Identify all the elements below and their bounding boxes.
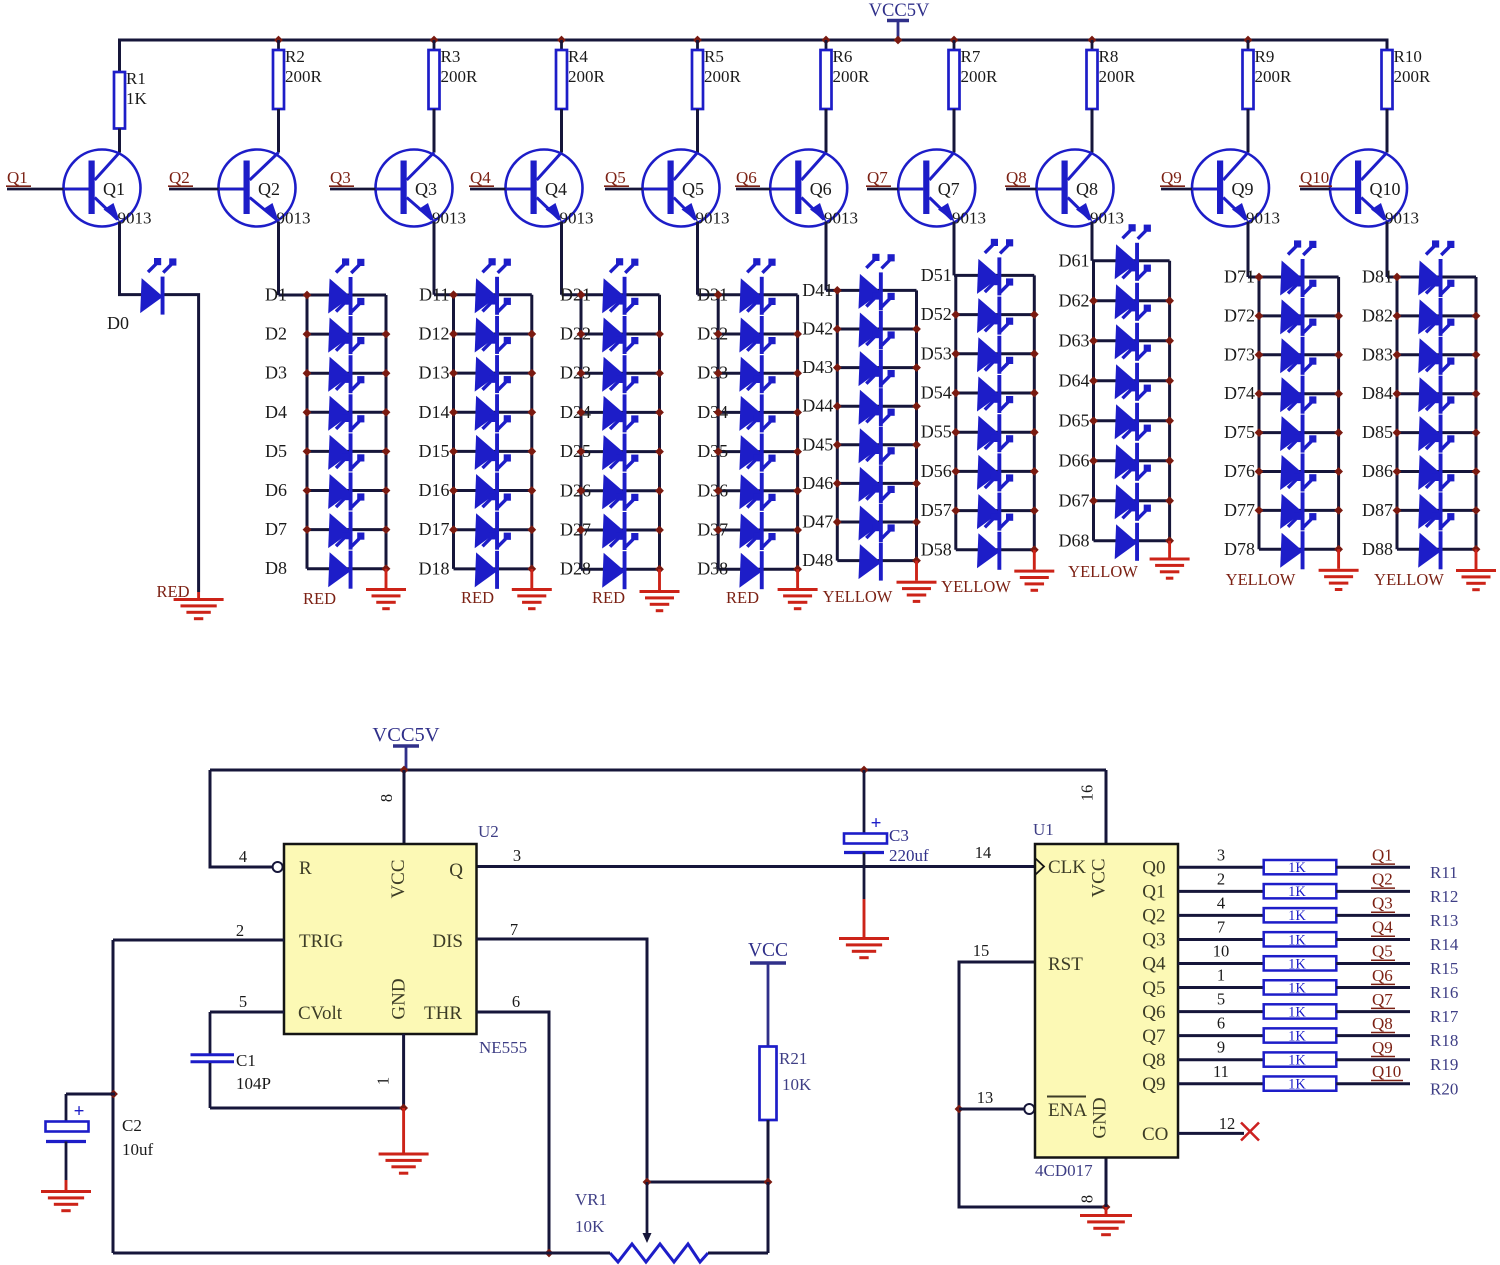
- svg-text:R9: R9: [1255, 47, 1275, 66]
- svg-text:YELLOW: YELLOW: [1374, 570, 1444, 589]
- capacitor C2 10uf: [46, 1094, 89, 1180]
- wire red stem ground col3: [530, 569, 533, 588]
- junction cathode bus: [527, 408, 536, 417]
- wire base of Q2: [169, 188, 244, 191]
- junction THR / bottom rail: [545, 1249, 554, 1258]
- LED D11: [475, 258, 511, 315]
- svg-text:5: 5: [1217, 990, 1225, 1009]
- svg-text:D28: D28: [560, 559, 591, 579]
- junction cathode bus: [1334, 506, 1343, 515]
- svg-text:Q7: Q7: [1142, 1026, 1165, 1047]
- wire LED row D47: [837, 521, 916, 524]
- svg-text:YELLOW: YELLOW: [823, 587, 893, 606]
- LED D56: [977, 435, 1013, 492]
- junction anode bus: [714, 330, 723, 339]
- resistor R21 10K: [760, 1047, 777, 1121]
- svg-text:GND: GND: [389, 978, 410, 1019]
- svg-text:R18: R18: [1430, 1031, 1458, 1050]
- wire LED row D68: [1094, 539, 1170, 542]
- LED D74: [1280, 357, 1316, 414]
- resistor R18 1K: [1264, 1028, 1337, 1044]
- LED D7: [328, 493, 364, 550]
- LED D63: [1115, 304, 1151, 361]
- resistor R10 200R: [1382, 40, 1432, 109]
- svg-text:R1: R1: [126, 69, 146, 88]
- svg-text:R19: R19: [1430, 1055, 1458, 1074]
- junction anode bus: [449, 486, 458, 495]
- junction anode bus: [951, 428, 960, 437]
- svg-text:13: 13: [977, 1088, 994, 1107]
- junction anode bus: [714, 369, 723, 378]
- wire Q3 to R14: [1178, 938, 1264, 941]
- wire Q9 to R10: [1178, 1082, 1264, 1085]
- junction anode bus: [1089, 456, 1098, 465]
- svg-text:R17: R17: [1430, 1007, 1459, 1026]
- svg-text:Q9: Q9: [1161, 168, 1182, 187]
- wire D0 cathode to ground: [165, 295, 199, 592]
- svg-text:D73: D73: [1224, 344, 1255, 364]
- wire LED cathode bus col3: [530, 295, 533, 569]
- junction anode bus: [833, 286, 842, 295]
- junction RST/ENA: [955, 1105, 964, 1114]
- ground col7: [1014, 570, 1054, 592]
- svg-text:200R: 200R: [285, 67, 323, 86]
- wire pin8 VCC of U2: [403, 770, 406, 844]
- junction on VCC rail: [557, 36, 566, 45]
- junction cathode bus: [1472, 428, 1481, 437]
- wire LED row D52: [956, 313, 1035, 316]
- junction cathode bus: [527, 486, 536, 495]
- junction anode bus: [303, 486, 312, 495]
- LED D18: [475, 532, 511, 589]
- resistor R5 200R: [692, 40, 742, 109]
- svg-text:D66: D66: [1059, 450, 1090, 470]
- svg-text:7: 7: [510, 920, 518, 939]
- junction cathode bus: [1165, 376, 1174, 385]
- junction anode bus: [577, 290, 586, 299]
- wire R17 output: [1336, 1010, 1410, 1013]
- net label Q8 (base): [1005, 168, 1030, 187]
- LED D86: [1418, 435, 1454, 492]
- ground col8: [1150, 558, 1190, 580]
- junction anode bus: [1255, 350, 1264, 359]
- junction cathode bus: [912, 479, 921, 488]
- wire THR pin6: [477, 1012, 550, 1253]
- junction DIS/VR1 wiper: [643, 1178, 652, 1187]
- wire emitter Q8 to LED ladder: [1091, 222, 1094, 261]
- svg-text:10: 10: [1213, 942, 1230, 961]
- svg-text:D33: D33: [697, 363, 728, 383]
- svg-text:VCC5V: VCC5V: [372, 724, 439, 746]
- junction anode bus: [303, 447, 312, 456]
- junction cathode bus: [1030, 506, 1039, 515]
- svg-text:Q10: Q10: [1300, 168, 1329, 187]
- pin label ENA: [1047, 1097, 1087, 1122]
- svg-text:9013: 9013: [1385, 209, 1419, 228]
- wire Q0 to R11: [1178, 866, 1264, 869]
- wire LED row D73: [1259, 353, 1339, 356]
- LED D57: [977, 474, 1013, 531]
- wire LED row D7: [307, 528, 386, 531]
- wire LED anode bus col4: [580, 295, 583, 569]
- junction anode bus: [1255, 389, 1264, 398]
- wire LED anode bus col7: [954, 275, 957, 549]
- LED D41: [859, 254, 895, 311]
- junction cathode bus: [793, 526, 802, 535]
- resistor R6 200R: [821, 40, 871, 109]
- wire LED row D54: [956, 392, 1035, 395]
- resistor R7 200R: [949, 40, 999, 109]
- svg-text:9013: 9013: [824, 209, 858, 228]
- LED D51: [977, 239, 1013, 296]
- svg-text:R3: R3: [441, 47, 461, 66]
- svg-text:RED: RED: [592, 588, 625, 607]
- transistor Q2 9013: [219, 150, 311, 228]
- wire LED row D58: [956, 548, 1035, 551]
- svg-text:Q3: Q3: [415, 179, 437, 199]
- svg-text:R5: R5: [704, 47, 724, 66]
- potentiometer VR1 10K wiper: [643, 1182, 652, 1243]
- wire R11 output: [1336, 866, 1410, 869]
- wire LED row D87: [1397, 509, 1476, 512]
- LED D12: [475, 297, 511, 354]
- power symbol VCC (R21): [750, 963, 786, 1047]
- svg-text:RED: RED: [726, 588, 759, 607]
- svg-text:Q10: Q10: [1370, 179, 1401, 199]
- svg-text:D5: D5: [265, 441, 287, 461]
- wire LED row D37: [718, 529, 797, 532]
- wire LED row D46: [837, 482, 916, 485]
- junction anode bus: [1089, 296, 1098, 305]
- junction on VCC rail: [274, 36, 283, 45]
- junction cathode bus: [1472, 506, 1481, 515]
- resistor R19 1K: [1264, 1052, 1337, 1068]
- wire bottom rail right: [708, 1252, 768, 1255]
- wire base of Q3: [330, 188, 401, 191]
- svg-text:1: 1: [374, 1077, 393, 1085]
- svg-text:4CD017: 4CD017: [1035, 1161, 1093, 1180]
- wire TRIG pin2: [113, 939, 284, 942]
- wire LED cathode bus col6: [915, 290, 918, 560]
- LED D83: [1418, 318, 1454, 375]
- wire trig vertical: [112, 940, 115, 1253]
- wire LED row D21: [562, 293, 660, 296]
- net label Q7 (base): [866, 168, 891, 187]
- ground col2: [366, 588, 406, 610]
- wire red stem ground col6: [915, 561, 918, 581]
- svg-text:D56: D56: [921, 461, 952, 481]
- LED D73: [1280, 318, 1316, 375]
- svg-text:D32: D32: [697, 324, 728, 344]
- junction anode bus: [577, 408, 586, 417]
- svg-text:R21: R21: [779, 1049, 807, 1068]
- svg-text:D0: D0: [107, 313, 129, 333]
- transistor Q8 9013: [1037, 150, 1125, 228]
- LED D65: [1115, 384, 1151, 441]
- svg-text:VCC: VCC: [748, 940, 788, 961]
- svg-text:Q5: Q5: [1372, 942, 1393, 961]
- wire LED row D78: [1259, 548, 1339, 551]
- svg-text:Q4: Q4: [1142, 954, 1166, 975]
- wire R12 output: [1336, 890, 1410, 893]
- wire R13 output: [1336, 914, 1410, 917]
- svg-text:Q6: Q6: [736, 168, 757, 187]
- svg-text:D75: D75: [1224, 422, 1255, 442]
- wire red stem ground col8: [1168, 541, 1171, 558]
- junction on VCC rail: [950, 36, 959, 45]
- svg-text:200R: 200R: [1394, 67, 1432, 86]
- junction cathode bus: [793, 486, 802, 495]
- LED D15: [475, 415, 511, 472]
- svg-text:7: 7: [1217, 917, 1225, 936]
- wire collector of Q8: [1091, 109, 1094, 153]
- LED D75: [1280, 396, 1316, 453]
- transistor Q10 9013: [1330, 150, 1419, 228]
- svg-text:RED: RED: [303, 589, 336, 608]
- wire LED row D56: [956, 470, 1035, 473]
- junction cathode bus: [1334, 428, 1343, 437]
- junction anode bus: [303, 525, 312, 534]
- LED D24: [602, 376, 638, 433]
- svg-text:Q6: Q6: [810, 179, 832, 199]
- junction cathode bus: [527, 369, 536, 378]
- wire LED row D86: [1397, 470, 1476, 473]
- junction cathode bus: [793, 369, 802, 378]
- junction C2 tap: [109, 1090, 118, 1099]
- resistor R16 1K: [1264, 980, 1337, 996]
- transistor Q6 9013: [770, 150, 858, 228]
- svg-text:1K: 1K: [126, 89, 148, 108]
- wire collector of Q4: [560, 109, 563, 153]
- svg-text:1K: 1K: [1288, 1004, 1306, 1020]
- svg-text:D48: D48: [802, 550, 833, 570]
- svg-text:10K: 10K: [575, 1217, 605, 1236]
- wire LED row D3: [307, 372, 386, 375]
- LED D77: [1280, 474, 1316, 531]
- svg-text:Q2: Q2: [169, 168, 190, 187]
- wire LED row D17: [454, 528, 532, 531]
- wire CO pin12: [1178, 1132, 1244, 1135]
- junction anode bus: [449, 408, 458, 417]
- svg-text:Q4: Q4: [545, 179, 567, 199]
- ground col9: [1319, 569, 1359, 591]
- wire red stem ground col7: [1033, 550, 1036, 570]
- LED D81: [1418, 240, 1454, 297]
- svg-text:11: 11: [1213, 1062, 1229, 1081]
- svg-text:R11: R11: [1430, 863, 1458, 882]
- resistor R9 200R: [1243, 40, 1293, 109]
- resistor R8 200R: [1087, 40, 1137, 109]
- LED D85: [1418, 396, 1454, 453]
- svg-text:D22: D22: [560, 324, 591, 344]
- wire red stem ground col9: [1337, 549, 1340, 569]
- svg-text:D14: D14: [419, 402, 450, 422]
- svg-text:Q3: Q3: [1142, 930, 1165, 951]
- wire LED row D43: [837, 366, 916, 369]
- svg-text:200R: 200R: [833, 67, 871, 86]
- junction anode bus: [833, 440, 842, 449]
- junction anode bus: [714, 447, 723, 456]
- net label Q1 (base): [6, 168, 31, 187]
- svg-text:ENA: ENA: [1048, 1100, 1087, 1121]
- wire LED row D76: [1259, 470, 1339, 473]
- wire LED row D75: [1259, 431, 1339, 434]
- svg-text:9013: 9013: [432, 209, 466, 228]
- svg-text:15: 15: [973, 941, 990, 960]
- junction cathode bus: [382, 408, 391, 417]
- junction cathode bus: [1472, 350, 1481, 359]
- wire R21 bottom: [767, 1120, 770, 1182]
- wire LED row D24: [581, 411, 660, 414]
- wire emitter Q1 to D0: [120, 222, 142, 295]
- svg-text:1K: 1K: [1288, 1028, 1306, 1044]
- LED D33: [739, 337, 775, 394]
- junction cathode bus: [912, 363, 921, 372]
- capacitor C1 104P: [191, 1012, 235, 1108]
- wire LED row D45: [837, 443, 916, 446]
- svg-text:D2: D2: [265, 324, 287, 344]
- wire: VCC5V top rail: [120, 40, 1388, 72]
- junction anode bus: [1393, 273, 1402, 282]
- svg-text:D6: D6: [265, 480, 287, 500]
- svg-text:D34: D34: [697, 402, 728, 422]
- junction anode bus: [449, 330, 458, 339]
- junction cathode bus: [1030, 467, 1039, 476]
- svg-text:Q4: Q4: [1372, 918, 1393, 937]
- wire LED cathode bus col10: [1475, 277, 1478, 549]
- svg-text:4: 4: [1217, 893, 1225, 912]
- junction cathode bus: [1165, 496, 1174, 505]
- wire LED cathode bus col7: [1033, 275, 1036, 549]
- wire red stem C3 ground: [863, 899, 866, 937]
- wire LED cathode bus col9: [1337, 277, 1340, 549]
- svg-text:14: 14: [975, 843, 992, 862]
- LED D67: [1115, 464, 1151, 521]
- svg-text:VCC: VCC: [1089, 858, 1110, 897]
- svg-text:1K: 1K: [1288, 908, 1306, 924]
- svg-text:5: 5: [239, 992, 247, 1011]
- wire base of Q9: [1161, 188, 1217, 191]
- wire LED row D85: [1397, 431, 1476, 434]
- svg-text:Q5: Q5: [1142, 978, 1165, 999]
- LED D72: [1280, 279, 1316, 336]
- wire LED row D34: [718, 411, 797, 414]
- svg-text:D85: D85: [1362, 422, 1393, 442]
- svg-text:9: 9: [1217, 1038, 1225, 1057]
- svg-text:D58: D58: [921, 539, 952, 559]
- LED D42: [859, 292, 895, 349]
- wire LED row D16: [454, 489, 532, 492]
- net label Q4 (base): [469, 168, 494, 187]
- wire LED row D72: [1259, 314, 1339, 317]
- svg-text:YELLOW: YELLOW: [1068, 562, 1138, 581]
- svg-text:8: 8: [377, 794, 396, 802]
- svg-text:D11: D11: [419, 284, 449, 304]
- wire ENA pin13: [959, 1108, 1024, 1111]
- svg-text:D82: D82: [1362, 305, 1393, 325]
- svg-text:2: 2: [1217, 869, 1225, 888]
- net label Q4 (output): [1371, 918, 1395, 937]
- potentiometer VR1 zigzag: [610, 1244, 708, 1262]
- wire R15 output: [1336, 962, 1410, 965]
- LED D26: [602, 454, 638, 511]
- wire LED row D71: [1248, 276, 1339, 279]
- net label Q6 (output): [1371, 966, 1395, 985]
- svg-text:1: 1: [1217, 966, 1225, 985]
- svg-text:NE555: NE555: [479, 1038, 527, 1057]
- wire R14 output: [1336, 938, 1410, 941]
- svg-text:CLK: CLK: [1048, 857, 1086, 878]
- junction cathode bus: [1030, 310, 1039, 319]
- svg-text:Q9: Q9: [1232, 179, 1254, 199]
- wire LED row D26: [581, 489, 660, 492]
- junction cathode bus: [1334, 467, 1343, 476]
- svg-text:D36: D36: [697, 480, 728, 500]
- junction cathode bus: [1165, 296, 1174, 305]
- ground col1: [174, 598, 224, 620]
- svg-text:D25: D25: [560, 441, 591, 461]
- wire DIS pin7: [477, 939, 648, 1182]
- junction cathode bus: [793, 447, 802, 456]
- wire emitter Q3 to LED ladder: [433, 222, 436, 295]
- svg-text:D51: D51: [921, 265, 952, 285]
- svg-text:C3: C3: [889, 826, 909, 845]
- junction VCC rail / C3: [860, 766, 869, 775]
- svg-text:R: R: [299, 858, 312, 879]
- svg-text:U2: U2: [478, 822, 499, 841]
- svg-text:Q4: Q4: [470, 168, 491, 187]
- wire LED row D82: [1397, 314, 1476, 317]
- wire Q4 to R15: [1178, 962, 1264, 965]
- LED D68: [1115, 504, 1151, 561]
- junction cathode bus: [1472, 312, 1481, 321]
- LED D58: [977, 513, 1013, 570]
- junction cathode bus: [382, 447, 391, 456]
- svg-text:Q10: Q10: [1372, 1062, 1401, 1081]
- ground col3: [512, 588, 552, 610]
- wire LED row D51: [954, 274, 1034, 277]
- LED D16: [475, 454, 511, 511]
- svg-text:1K: 1K: [1288, 956, 1306, 972]
- svg-text:D21: D21: [560, 284, 591, 304]
- svg-text:D81: D81: [1362, 267, 1393, 287]
- svg-text:RED: RED: [157, 582, 190, 601]
- LED D2: [328, 298, 364, 355]
- resistor R1 1K: [114, 69, 148, 129]
- no-connect X on CO: [1241, 1123, 1259, 1141]
- clock input triangle: [1035, 858, 1044, 875]
- svg-text:R4: R4: [568, 47, 588, 66]
- LED D4: [328, 376, 364, 433]
- svg-text:U1: U1: [1033, 820, 1054, 839]
- svg-text:D63: D63: [1059, 330, 1090, 350]
- svg-text:2: 2: [236, 921, 244, 940]
- wire red stem col1 ground: [197, 592, 200, 598]
- LED D78: [1280, 513, 1316, 570]
- svg-text:R13: R13: [1430, 911, 1458, 930]
- svg-text:1K: 1K: [1288, 1077, 1306, 1093]
- net label Q2 (output): [1371, 870, 1395, 889]
- resistor R15 1K: [1264, 956, 1337, 972]
- svg-text:Q2: Q2: [1372, 870, 1393, 889]
- svg-text:D3: D3: [265, 363, 287, 383]
- junction cathode bus: [527, 564, 536, 573]
- junction cathode bus: [527, 330, 536, 339]
- junction anode bus: [714, 486, 723, 495]
- LED D35: [739, 415, 775, 472]
- svg-text:R10: R10: [1394, 47, 1422, 66]
- LED D43: [859, 331, 895, 388]
